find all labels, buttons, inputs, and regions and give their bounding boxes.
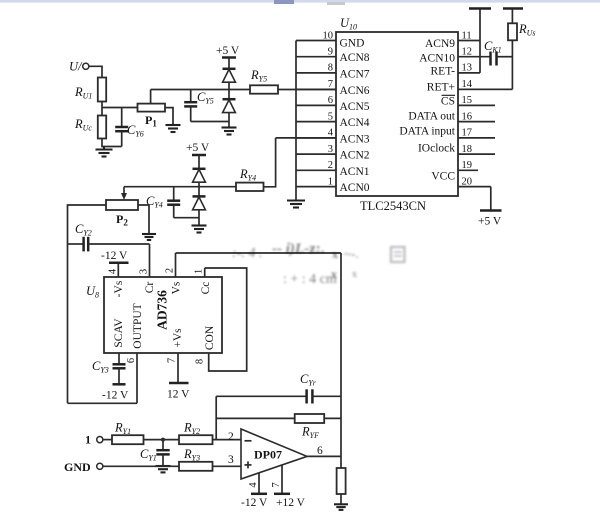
- svg-text:8: 8: [195, 359, 206, 364]
- ground: [287, 201, 305, 208]
- svg-text:15: 15: [462, 95, 473, 106]
- node GND input terminal: [64, 460, 103, 474]
- ground: [156, 466, 171, 472]
- svg-text:ACN8: ACN8: [340, 52, 370, 64]
- resistor RYF: [216, 414, 341, 440]
- svg-text:CON: CON: [204, 325, 216, 350]
- svg-text:-12 V: -12 V: [241, 497, 268, 509]
- wire: [191, 121, 229, 123]
- power +5V: [186, 142, 210, 169]
- resistor load: [337, 468, 346, 494]
- potentiometer P1: [138, 90, 166, 129]
- svg-text:RY5: RY5: [250, 68, 267, 84]
- watermark: [232, 241, 405, 287]
- svg-text:IOclock: IOclock: [418, 143, 455, 155]
- pin 17 DATA input: [399, 126, 495, 139]
- svg-text:RET+: RET+: [427, 82, 455, 94]
- wire: [307, 455, 341, 457]
- svg-text:: + : 4 cm: : + : 4 cm: [283, 272, 337, 287]
- svg-text:ACN4: ACN4: [340, 117, 370, 129]
- pin 2 ACN1: [296, 160, 370, 178]
- wire: [138, 205, 149, 233]
- svg-text:+12 V: +12 V: [276, 497, 306, 509]
- wire: [124, 186, 236, 188]
- svg-text:CK1: CK1: [484, 39, 502, 55]
- svg-text:ACN0: ACN0: [340, 182, 370, 194]
- wire feedback tap: [215, 396, 217, 439]
- power -12V: [101, 250, 129, 263]
- resistor RY5: [250, 68, 278, 94]
- svg-text:P1: P1: [145, 113, 157, 129]
- wire output bus: [340, 253, 342, 468]
- wire: [205, 268, 247, 371]
- node U/ input terminal: [69, 60, 89, 74]
- resistor RY2: [179, 421, 213, 445]
- svg-text:x: x: [331, 267, 337, 281]
- svg-text:7: 7: [271, 482, 282, 487]
- pin 5 SCAV: [118, 353, 120, 364]
- svg-text:5: 5: [328, 111, 333, 122]
- svg-text:RY3: RY3: [183, 447, 200, 463]
- pin 15 CS: [441, 95, 495, 107]
- diode D1: [223, 69, 236, 99]
- svg-text:ACN3: ACN3: [340, 133, 370, 145]
- svg-text:x: x: [332, 247, 338, 261]
- op-amp DP07: [241, 429, 307, 479]
- diode D3: [193, 169, 206, 196]
- wire: [67, 244, 69, 403]
- svg-text:3: 3: [139, 269, 150, 274]
- pin 3 ACN2: [296, 144, 370, 162]
- power +12V: [274, 494, 306, 509]
- svg-text:2: 2: [328, 160, 333, 171]
- svg-text:3: 3: [328, 144, 333, 155]
- wire: [176, 252, 342, 254]
- svg-text:AD736: AD736: [155, 290, 170, 330]
- svg-text:CY2: CY2: [75, 222, 92, 238]
- svg-text:U8: U8: [86, 284, 99, 300]
- pin 20 VCC: [431, 171, 490, 188]
- pin 6 OUTPUT: [126, 353, 137, 403]
- svg-text:CY6: CY6: [127, 123, 144, 139]
- pin 4 ACN3: [296, 128, 370, 146]
- svg-text:Cc: Cc: [200, 282, 212, 295]
- pin 9 ACN8: [296, 47, 370, 65]
- pin 16 DATA out: [408, 111, 495, 123]
- svg-text:ACN5: ACN5: [340, 101, 370, 113]
- svg-text:TLC2543CN: TLC2543CN: [360, 199, 426, 213]
- svg-text::-. 4 .: :-. 4 .: [232, 246, 262, 261]
- wire: [511, 40, 513, 89]
- svg-text:2: 2: [228, 431, 234, 443]
- pin 7: [271, 465, 282, 493]
- svg-text:1: 1: [194, 269, 205, 274]
- svg-text:x: x: [352, 269, 357, 280]
- svg-text:7: 7: [328, 79, 333, 90]
- svg-text:9: 9: [328, 47, 333, 58]
- svg-text:1: 1: [328, 176, 333, 187]
- svg-text:ACN6: ACN6: [340, 85, 370, 97]
- capacitor CY4: [146, 187, 180, 218]
- capacitor CY3: [92, 359, 126, 384]
- svg-text:4: 4: [108, 268, 119, 274]
- resistor RY3: [179, 447, 213, 471]
- svg-text:8: 8: [328, 63, 333, 74]
- wire: [89, 66, 102, 77]
- node junction: [161, 438, 165, 442]
- svg-text:RY2: RY2: [183, 421, 200, 437]
- top scan band: [0, 0, 600, 3]
- power -12V: [241, 494, 268, 509]
- svg-text:Vs: Vs: [171, 281, 183, 294]
- svg-text:GND: GND: [340, 38, 365, 50]
- resistor RY1: [112, 421, 144, 445]
- svg-text:U/: U/: [69, 60, 83, 74]
- svg-text:6: 6: [126, 358, 137, 363]
- svg-text:11: 11: [462, 30, 472, 41]
- svg-text:6: 6: [328, 95, 333, 106]
- svg-text:14: 14: [462, 79, 473, 90]
- svg-text:RY4: RY4: [239, 167, 256, 183]
- pin 7 +Vs: [167, 353, 179, 383]
- svg-text:VCC: VCC: [431, 171, 455, 183]
- wire: [102, 139, 122, 147]
- ground: [166, 125, 181, 132]
- svg-text:CYr: CYr: [300, 372, 317, 388]
- svg-text:-12 V: -12 V: [101, 250, 128, 262]
- wire: [276, 137, 336, 139]
- svg-text:4: 4: [328, 128, 334, 139]
- power +5V: [216, 45, 240, 69]
- ground: [142, 234, 156, 240]
- svg-text:16: 16: [462, 111, 473, 122]
- potentiometer P2: [106, 187, 138, 228]
- pin 1 ACN0: [296, 176, 370, 194]
- svg-text:+5 V: +5 V: [186, 142, 210, 154]
- pin 2 Vs: [165, 253, 176, 277]
- wire: [101, 102, 103, 116]
- svg-text:+5 V: +5 V: [216, 45, 240, 57]
- svg-text:3: 3: [228, 454, 234, 466]
- capacitor CK1: [484, 39, 512, 66]
- wire: [149, 244, 151, 277]
- pin 19 NC: [458, 160, 478, 171]
- pin 18 IOclock: [418, 143, 495, 155]
- resistor RY4: [236, 167, 264, 191]
- svg-text:+5 V: +5 V: [478, 216, 502, 228]
- power -12V: [102, 384, 129, 401]
- svg-text:CS: CS: [441, 96, 455, 108]
- node 1 input terminal: [85, 433, 103, 447]
- svg-text:U10: U10: [340, 16, 357, 32]
- pin 5 ACN4: [296, 111, 370, 129]
- pin 14 RET+: [427, 79, 513, 93]
- ground rail bar: [503, 7, 523, 10]
- wire: [458, 88, 512, 90]
- op-amp U8 AD736 body: [86, 277, 222, 353]
- wire analog input bus: [295, 41, 297, 200]
- wire: [213, 465, 242, 467]
- svg-text:ACN2: ACN2: [340, 150, 370, 162]
- svg-text:RU1: RU1: [74, 85, 92, 101]
- svg-text:10: 10: [323, 30, 334, 41]
- wire: [165, 108, 173, 124]
- svg-text:~-.: ~-.: [344, 246, 359, 261]
- svg-text:12: 12: [462, 47, 473, 58]
- wire: [68, 205, 107, 244]
- svg-text:19: 19: [462, 160, 473, 171]
- svg-text:RUs: RUs: [518, 22, 536, 38]
- wire: [479, 10, 481, 73]
- ground: [192, 226, 207, 233]
- svg-text:2: 2: [165, 268, 176, 273]
- wire: [151, 89, 250, 91]
- wire: [278, 89, 336, 91]
- diode D4: [193, 196, 206, 224]
- diode D2: [223, 99, 236, 127]
- resistor RUs: [508, 10, 536, 41]
- pin 13 RET-: [431, 63, 481, 78]
- wire: [144, 439, 180, 441]
- svg-text:RET-: RET-: [431, 66, 456, 78]
- wire: [264, 138, 276, 187]
- svg-text:-12 V: -12 V: [102, 390, 129, 402]
- wire: [68, 402, 138, 404]
- svg-text:13: 13: [462, 63, 473, 74]
- svg-text:RYF: RYF: [301, 425, 319, 441]
- svg-text:CY3: CY3: [92, 359, 109, 375]
- svg-text:ACN9: ACN9: [425, 38, 455, 50]
- svg-text:20: 20: [462, 176, 473, 187]
- ground: [96, 147, 113, 157]
- wire: [103, 439, 112, 441]
- wire: [174, 217, 199, 219]
- ground: [222, 128, 237, 135]
- pin 4: [248, 473, 259, 493]
- wire: [103, 465, 179, 467]
- svg-text:+Vs: +Vs: [172, 328, 184, 348]
- capacitor CY2: [68, 222, 150, 251]
- wire: [490, 187, 492, 210]
- svg-text:CY5: CY5: [197, 90, 214, 106]
- svg-text:18: 18: [462, 144, 473, 155]
- capacitor CY1: [140, 440, 170, 465]
- capacitor CY5: [184, 90, 214, 122]
- svg-text:-Vs: -Vs: [113, 280, 125, 297]
- pin 8 ACN7: [296, 63, 370, 81]
- svg-text:DATA input: DATA input: [399, 126, 455, 138]
- svg-text:RUc: RUc: [74, 117, 92, 133]
- pin 4 -Vs: [108, 264, 119, 278]
- pin 10 GND: [296, 30, 364, 49]
- pin 12 ACN10: [419, 47, 490, 65]
- svg-text:RY1: RY1: [114, 421, 131, 437]
- svg-text:ACN1: ACN1: [340, 166, 370, 178]
- capacitor CYr: [216, 372, 341, 404]
- resistor RU1: [74, 78, 106, 102]
- capacitor CY6: [115, 108, 144, 147]
- wire: [213, 439, 242, 441]
- svg-text:P2: P2: [116, 212, 128, 228]
- ground: [334, 504, 348, 510]
- ground rail bar: [469, 7, 491, 10]
- wire: [340, 494, 342, 504]
- wire: [102, 107, 138, 109]
- power +5V: [478, 211, 502, 228]
- svg-text:GND: GND: [64, 460, 91, 474]
- svg-text:OUTPUT: OUTPUT: [132, 303, 144, 348]
- svg-text:6: 6: [317, 445, 323, 457]
- svg-text:-- i)L-z:.: -- i)L-z:.: [272, 241, 325, 257]
- pin 1 Cc: [194, 268, 205, 277]
- svg-text:17: 17: [462, 128, 473, 139]
- svg-text:SCAV: SCAV: [113, 318, 125, 348]
- svg-text:7: 7: [167, 358, 178, 363]
- resistor RUc: [74, 116, 106, 139]
- IC U10 TLC2543CN body: [336, 16, 458, 213]
- pin 7 ACN6: [296, 79, 370, 97]
- svg-text:CY1: CY1: [140, 447, 157, 463]
- pin 11 ACN9: [425, 30, 480, 50]
- pin 6 ACN5: [296, 95, 370, 113]
- svg-text:ACN7: ACN7: [340, 68, 370, 80]
- svg-text:ACN10: ACN10: [419, 53, 455, 65]
- svg-text:12 V: 12 V: [167, 389, 190, 401]
- svg-text:1: 1: [85, 433, 91, 447]
- svg-text:DP07: DP07: [254, 448, 282, 462]
- svg-text:4: 4: [248, 482, 259, 488]
- power 12V: [167, 383, 190, 401]
- svg-text:DATA out: DATA out: [408, 111, 455, 123]
